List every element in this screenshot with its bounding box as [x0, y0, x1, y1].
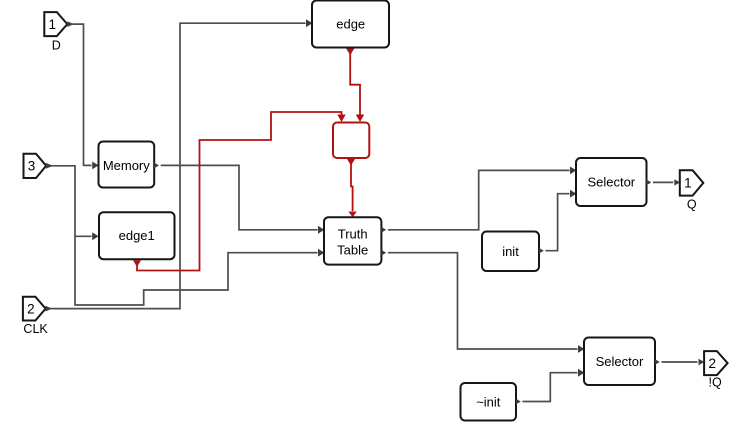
svg-text:2: 2 — [27, 301, 35, 316]
red wire edge output to red block top port 2 — [346, 49, 364, 123]
block Truth Table — [324, 217, 381, 264]
svg-text:edge1: edge1 — [119, 228, 155, 243]
svg-text:Selector: Selector — [596, 354, 644, 369]
block Memory — [99, 142, 155, 188]
wire init to Selector (top) in2 — [539, 190, 576, 254]
svg-text:2: 2 — [708, 356, 716, 371]
wire ~init to Selector (bottom) in2 — [516, 369, 584, 405]
block init — [482, 232, 539, 272]
inport 3 — [24, 154, 47, 178]
wire Selector (bottom) to outport !Q — [655, 359, 704, 365]
wire port3 to edge1 and Truth Table in2 — [46, 163, 324, 305]
svg-text:Selector: Selector — [587, 175, 635, 190]
red wire red block output to Truth Table top — [347, 159, 357, 217]
svg-text:~init: ~init — [476, 394, 501, 409]
svg-text:3: 3 — [28, 159, 36, 174]
block Selector (bottom) — [584, 338, 655, 386]
inport 1 (D) — [44, 12, 67, 36]
svg-text:1: 1 — [49, 17, 57, 32]
svg-text:D: D — [52, 39, 61, 53]
svg-text:init: init — [502, 244, 519, 259]
svg-text:Truth: Truth — [338, 226, 368, 241]
block edge — [312, 1, 389, 48]
wire Selector (top) to outport Q — [647, 179, 681, 185]
red wire edge1 output to red block top port 1 — [133, 112, 346, 271]
outport 1 (Q) — [680, 170, 704, 195]
svg-text:1: 1 — [684, 176, 692, 191]
svg-text:CLK: CLK — [23, 322, 48, 336]
svg-text:!Q: !Q — [708, 376, 721, 390]
svg-text:Table: Table — [337, 242, 368, 257]
wire D to Memory input — [67, 21, 98, 169]
wire CLK to edge input — [46, 19, 313, 311]
outport 2 (!Q) — [704, 351, 728, 375]
block ~init — [461, 383, 517, 421]
wire Memory output to Truth Table in1 — [154, 163, 324, 234]
svg-text:edge: edge — [336, 17, 365, 32]
svg-text:Q: Q — [687, 198, 697, 212]
wire Truth Table out1 to Selector (top) in1 — [381, 167, 576, 233]
svg-text:Memory: Memory — [103, 158, 150, 173]
block Selector (top) — [576, 158, 647, 206]
inport 2 (CLK) — [23, 297, 46, 321]
block edge1 — [99, 212, 175, 259]
wire Truth Table out2 to Selector (bottom) in1 — [381, 250, 584, 353]
red block (unresolved) — [333, 123, 369, 159]
